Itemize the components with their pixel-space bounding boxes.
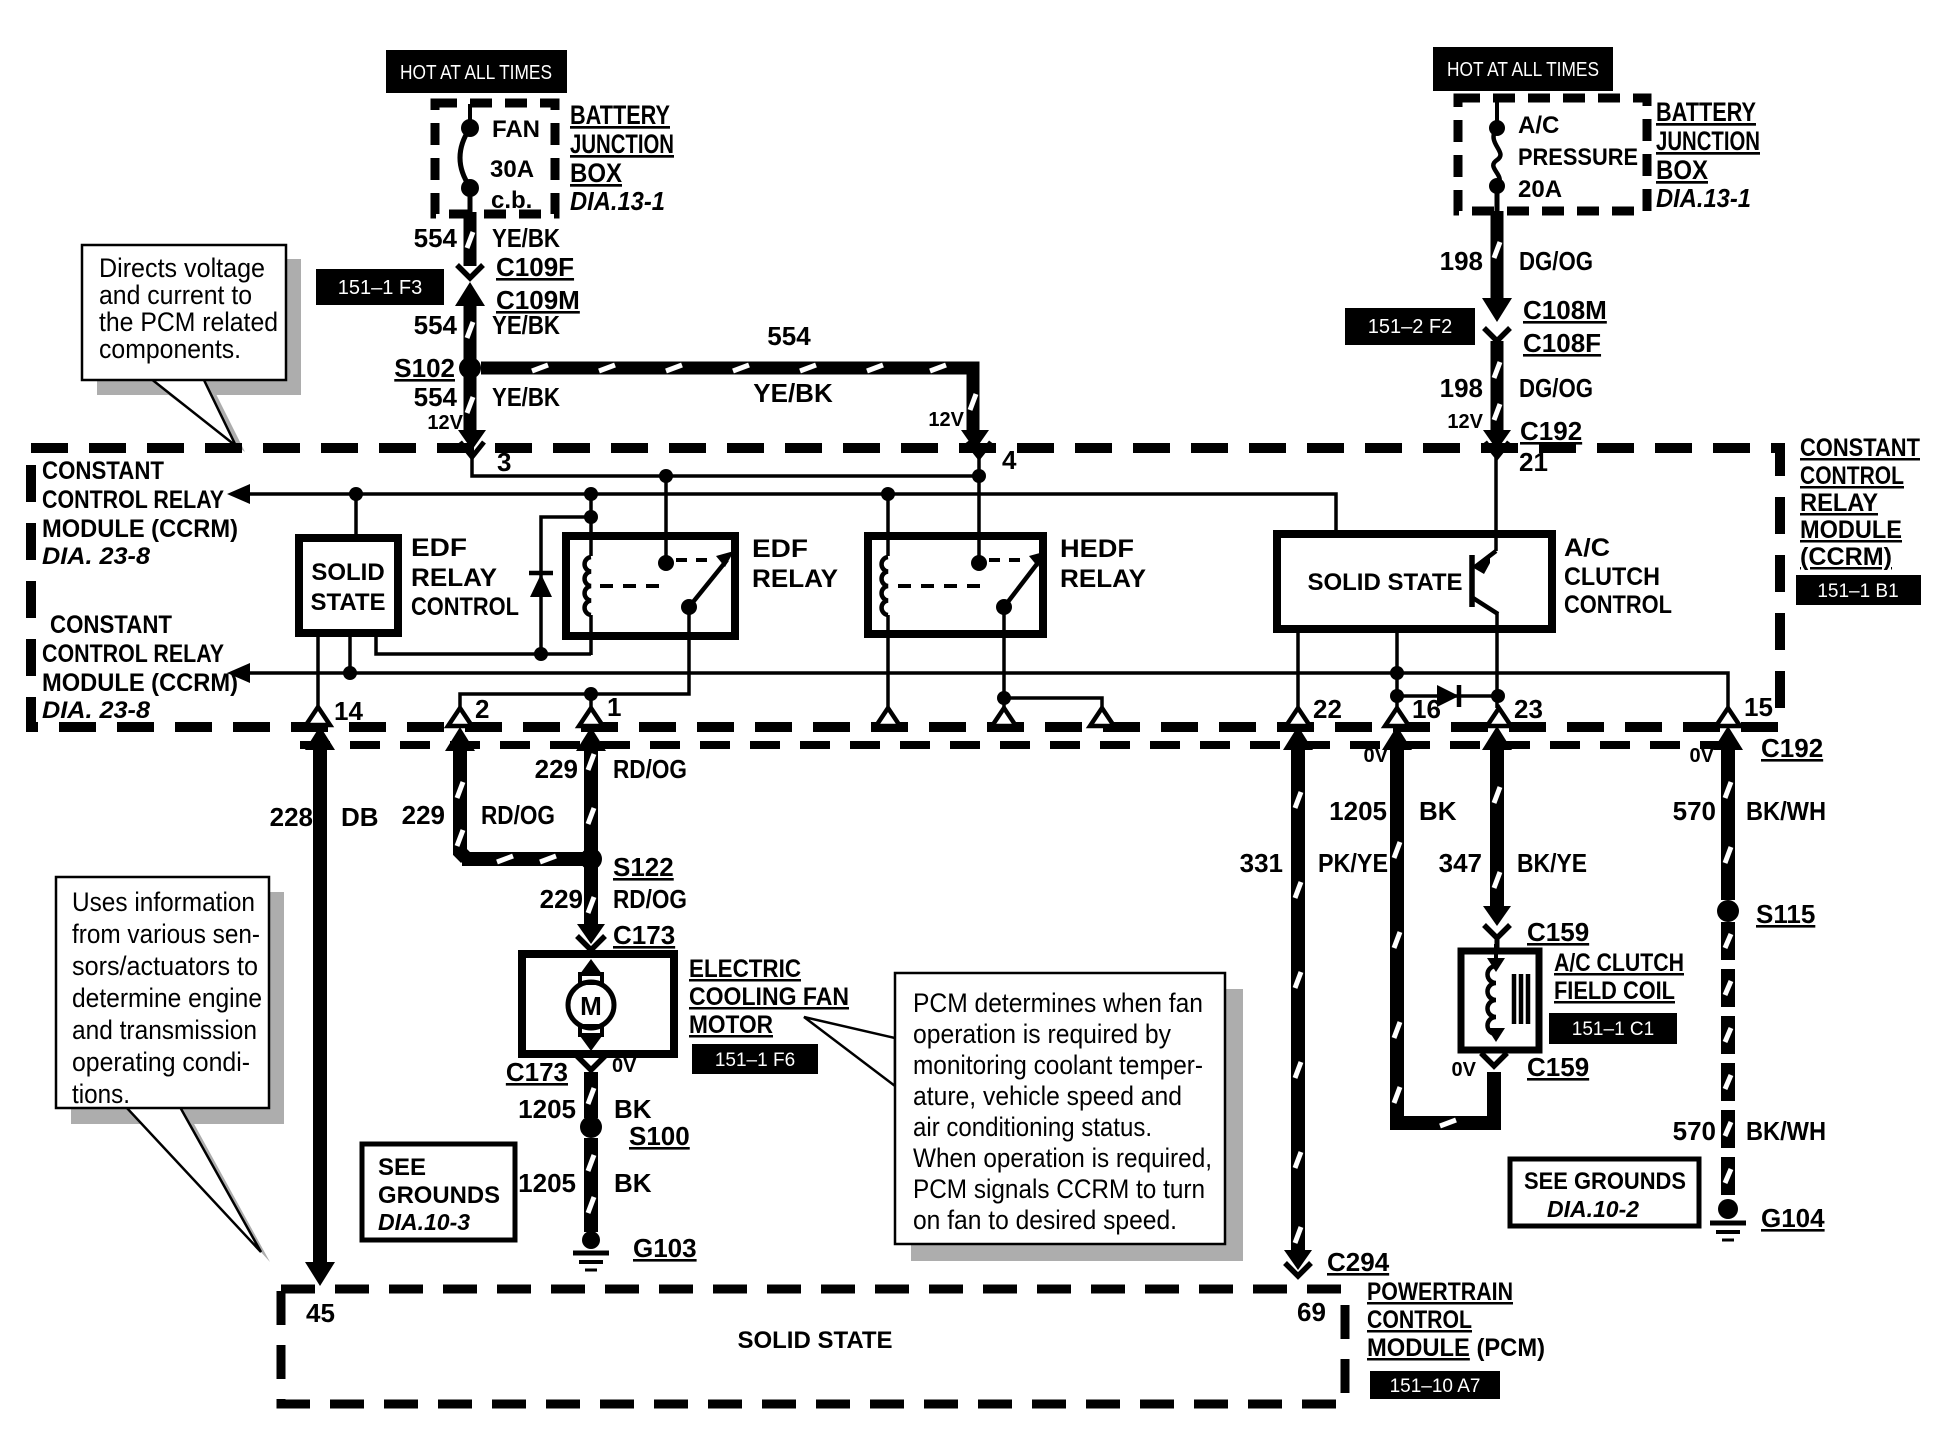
- wire supply rail to solid states and relay coils: [227, 484, 1336, 534]
- svg-text:tions.: tions.: [72, 1079, 130, 1109]
- svg-text:PK/YE: PK/YE: [1318, 848, 1388, 878]
- svg-text:JUNCTION: JUNCTION: [1656, 126, 1760, 156]
- svg-text:554: 554: [414, 382, 458, 412]
- svg-text:1: 1: [607, 692, 621, 722]
- wire 229 RD/OG (pin 1 to S122): [576, 727, 606, 852]
- svg-text:DG/OG: DG/OG: [1519, 246, 1593, 276]
- svg-text:ature, vehicle speed and: ature, vehicle speed and: [913, 1081, 1182, 1111]
- svg-text:S122: S122: [613, 852, 674, 882]
- svg-text:4: 4: [1002, 445, 1017, 475]
- wire right solid state to pin 22: [1296, 629, 1300, 708]
- pin 4: [967, 442, 1017, 475]
- svg-text:229: 229: [540, 884, 583, 914]
- motor M symbol: [568, 959, 614, 1051]
- connector C108M/C108F: [1484, 295, 1607, 358]
- pin 21: [1485, 442, 1548, 477]
- svg-text:PCM determines when fan: PCM determines when fan: [913, 988, 1203, 1018]
- wire pin3 to pin4 feed: [472, 457, 986, 483]
- label: A/C CLUTCH FIELD COIL: [1554, 949, 1684, 1005]
- svg-text:HEDF: HEDF: [1060, 535, 1134, 563]
- svg-text:and current to: and current to: [99, 280, 252, 310]
- note bubble: Uses information: [56, 877, 284, 1262]
- wire 554 YE/BK horizontal (S102 to pin 4): [481, 365, 989, 450]
- EDF contact output wire to pins 1 and 2: [460, 607, 689, 708]
- wire solid state to pin 14: [316, 633, 320, 708]
- wire 1205 BK (pin 16 to A/C clutch return): [1382, 726, 1494, 1126]
- svg-text:12V: 12V: [427, 412, 463, 434]
- svg-text:151–1 F3: 151–1 F3: [338, 277, 423, 299]
- label: CONSTANT CONTROL RELAY MODULE (CCRM) DIA. 23-8 (upper left): [42, 457, 238, 570]
- svg-text:1205: 1205: [518, 1168, 576, 1198]
- svg-text:STATE: STATE: [310, 589, 385, 616]
- PCM module dashed box: [281, 1289, 1345, 1404]
- svg-text:CONTROL: CONTROL: [1367, 1306, 1472, 1334]
- svg-text:SOLID: SOLID: [311, 559, 384, 586]
- label: CONSTANT CONTROL RELAY MODULE (CCRM) (right): [1800, 434, 1920, 571]
- svg-text:FAN: FAN: [492, 116, 540, 143]
- svg-text:151–1 B1: 151–1 B1: [1817, 581, 1898, 602]
- svg-text:15: 15: [1744, 692, 1773, 722]
- pin 23: [1487, 694, 1543, 726]
- svg-text:229: 229: [402, 800, 445, 830]
- unlabeled pin (HEDF contact b): [1090, 708, 1114, 726]
- svg-text:EDF: EDF: [411, 534, 467, 562]
- svg-text:(CCRM): (CCRM): [1800, 543, 1892, 571]
- label: BATTERY JUNCTION BOX DIA.13-1 (right): [1656, 97, 1760, 213]
- svg-text:EDF: EDF: [752, 535, 808, 563]
- svg-text:RELAY: RELAY: [411, 564, 497, 592]
- connector C192 dashed line: [300, 733, 1823, 763]
- EDF relay box: [566, 536, 735, 636]
- svg-text:1205: 1205: [518, 1094, 576, 1124]
- svg-text:C159: C159: [1527, 1052, 1589, 1082]
- wire 229 RD/OG (pin 2 to S122): [445, 727, 584, 862]
- svg-text:A/C: A/C: [1564, 534, 1610, 562]
- svg-text:0V: 0V: [1452, 1059, 1477, 1081]
- svg-text:A/C CLUTCH: A/C CLUTCH: [1554, 949, 1684, 977]
- wire 1205 BK (S100 to G103): [588, 1138, 594, 1232]
- label: EDF RELAY CONTROL: [411, 534, 519, 621]
- svg-text:YE/BK: YE/BK: [492, 310, 560, 340]
- wire 228 DB (pin 14 to PCM pin 45): [305, 726, 335, 1286]
- svg-text:347: 347: [1439, 848, 1482, 878]
- wire 1205 BK (C173 to S100): [588, 1072, 594, 1118]
- svg-text:sors/actuators to: sors/actuators to: [72, 951, 258, 981]
- note box: SEE GROUNDS DIA.10-3: [362, 1144, 515, 1240]
- wire 331 PK/YE (pin 22 to C294 / PCM pin 69): [1283, 726, 1313, 1270]
- A/C clutch coil symbol: [1487, 944, 1528, 1042]
- label box: HOT AT ALL TIMES (left): [386, 50, 567, 93]
- svg-text:CONTROL: CONTROL: [1564, 591, 1672, 619]
- unlabeled pin (HEDF coil): [876, 708, 900, 726]
- grid label 151-1 B1: [1796, 575, 1921, 605]
- svg-text:S115: S115: [1756, 899, 1815, 929]
- splice S102: [394, 353, 481, 383]
- svg-text:198: 198: [1440, 246, 1483, 276]
- svg-text:20A: 20A: [1518, 176, 1562, 203]
- note bubble: Directs voltage: [82, 245, 301, 452]
- HEDF relay coil: [882, 494, 888, 708]
- svg-text:MODULE (PCM): MODULE (PCM): [1367, 1334, 1545, 1362]
- svg-text:M: M: [580, 991, 602, 1021]
- svg-text:components.: components.: [99, 334, 241, 364]
- svg-text:C159: C159: [1527, 917, 1589, 947]
- svg-text:the PCM related: the PCM related: [99, 307, 278, 337]
- svg-text:30A: 30A: [490, 156, 534, 183]
- svg-text:12V: 12V: [1447, 411, 1483, 433]
- svg-text:C173: C173: [506, 1057, 568, 1087]
- splice S100: [580, 1116, 690, 1151]
- EDF relay coil: [584, 494, 598, 655]
- wire 570 BK/WH (S115 to G104): [1725, 922, 1731, 1200]
- note box: SEE GROUNDS DIA.10-2: [1510, 1159, 1699, 1226]
- svg-text:HOT AT ALL TIMES: HOT AT ALL TIMES: [1447, 59, 1599, 81]
- solid state block (A/C clutch control): [1277, 534, 1552, 629]
- svg-text:DIA. 23-8: DIA. 23-8: [42, 543, 151, 570]
- connector C173 (top): [577, 920, 675, 950]
- svg-text:22: 22: [1313, 694, 1342, 724]
- svg-text:CONTROL RELAY: CONTROL RELAY: [42, 486, 224, 514]
- svg-text:MODULE (CCRM): MODULE (CCRM): [42, 669, 238, 697]
- svg-text:554: 554: [414, 310, 458, 340]
- electric cooling fan motor box: [522, 954, 674, 1054]
- label: ELECTRIC COOLING FAN MOTOR: [689, 955, 849, 1039]
- circuit breaker symbol: [460, 104, 479, 214]
- svg-text:DB: DB: [341, 802, 379, 832]
- battery junction box (right, A/C PRESSURE 20A): [1458, 98, 1647, 211]
- svg-text:151–10 A7: 151–10 A7: [1390, 1376, 1481, 1397]
- diode pin16 to pin23: [1397, 685, 1505, 707]
- solid state block (EDF control): [299, 538, 398, 633]
- svg-text:0V: 0V: [612, 1055, 637, 1077]
- svg-text:BK/YE: BK/YE: [1517, 848, 1587, 878]
- svg-text:operating condi-: operating condi-: [72, 1047, 250, 1077]
- pin 15: [1716, 692, 1773, 726]
- svg-text:from various sen-: from various sen-: [72, 919, 260, 949]
- transistor Q (A/C clutch driver): [1472, 457, 1498, 708]
- svg-text:DIA.13-1: DIA.13-1: [570, 186, 665, 216]
- svg-text:Uses information: Uses information: [72, 887, 255, 917]
- svg-text:When operation is required,: When operation is required,: [913, 1143, 1212, 1173]
- wire 229 RD/OG (S122 to C173): [577, 859, 605, 944]
- unlabeled pin (HEDF contact a): [992, 708, 1016, 726]
- svg-text:DG/OG: DG/OG: [1519, 373, 1593, 403]
- wire 198 DG/OG (C108F to pin 21): [1483, 341, 1511, 450]
- wire right solid state to pin 16: [1390, 629, 1404, 708]
- svg-text:16: 16: [1412, 694, 1441, 724]
- grid label 151-2 F2: [1345, 308, 1475, 345]
- splice S122: [580, 848, 674, 882]
- svg-text:BK: BK: [614, 1094, 652, 1124]
- svg-text:0V: 0V: [1364, 745, 1389, 767]
- ground G103: [573, 1231, 697, 1270]
- svg-text:POWERTRAIN: POWERTRAIN: [1367, 1278, 1513, 1306]
- grid label 151-1 F6: [692, 1044, 818, 1074]
- svg-text:DIA.10-2: DIA.10-2: [1547, 1196, 1639, 1222]
- svg-text:GROUNDS: GROUNDS: [378, 1182, 500, 1209]
- wire 198 DG/OG (fuse to C108M): [1482, 211, 1512, 322]
- svg-text:YE/BK: YE/BK: [753, 378, 833, 408]
- note box: PCM determines: [804, 973, 1243, 1261]
- svg-text:DIA.10-3: DIA.10-3: [378, 1209, 470, 1235]
- svg-text:c.b.: c.b.: [491, 187, 532, 214]
- svg-text:570: 570: [1673, 1116, 1716, 1146]
- svg-text:MODULE: MODULE: [1800, 516, 1902, 544]
- svg-text:BATTERY: BATTERY: [570, 100, 670, 130]
- svg-text:C108F: C108F: [1523, 328, 1601, 358]
- svg-text:DIA.13-1: DIA.13-1: [1656, 183, 1751, 213]
- svg-text:3: 3: [497, 447, 511, 477]
- wire 554 YE/BK (C109M to S102): [467, 300, 473, 362]
- pin 2: [448, 694, 489, 726]
- pin 14: [306, 696, 363, 726]
- svg-text:RD/OG: RD/OG: [481, 800, 555, 830]
- svg-text:C294: C294: [1327, 1247, 1390, 1277]
- svg-text:CONTROL: CONTROL: [1800, 462, 1904, 490]
- wire 347 BK/YE (pin 23 to C159): [1482, 726, 1512, 926]
- svg-text:A/C: A/C: [1518, 112, 1559, 139]
- svg-text:RD/OG: RD/OG: [613, 884, 687, 914]
- svg-text:on fan to desired speed.: on fan to desired speed.: [913, 1205, 1177, 1235]
- svg-text:BOX: BOX: [1656, 155, 1708, 185]
- svg-text:S100: S100: [629, 1121, 690, 1151]
- svg-text:BK: BK: [1419, 796, 1457, 826]
- label: CONSTANT CONTROL RELAY MODULE (CCRM) DIA. 23-8 (lower left): [42, 611, 238, 724]
- wire 570 BK/WH (pin 15 to S115): [1713, 726, 1743, 900]
- battery junction box (left, FAN 30A c.b.): [435, 103, 555, 214]
- svg-text:2: 2: [475, 694, 489, 724]
- label box: HOT AT ALL TIMES (right): [1433, 47, 1613, 91]
- connector C109F/C109M: [455, 252, 580, 315]
- svg-text:MODULE (CCRM): MODULE (CCRM): [42, 515, 238, 543]
- svg-text:151–2 F2: 151–2 F2: [1368, 316, 1453, 338]
- svg-text:FIELD COIL: FIELD COIL: [1554, 977, 1675, 1005]
- svg-text:DIA. 23-8: DIA. 23-8: [42, 697, 151, 724]
- pin 22: [1286, 694, 1342, 726]
- svg-text:RD/OG: RD/OG: [613, 754, 687, 784]
- svg-text:554: 554: [767, 321, 811, 351]
- svg-text:228: 228: [270, 802, 313, 832]
- grid label 151-1 C1: [1549, 1013, 1677, 1044]
- svg-text:C108M: C108M: [1523, 295, 1607, 325]
- svg-text:BK: BK: [614, 1168, 652, 1198]
- svg-text:HOT AT ALL TIMES: HOT AT ALL TIMES: [400, 62, 552, 84]
- svg-text:C192: C192: [1520, 416, 1582, 446]
- svg-text:C109F: C109F: [496, 252, 574, 282]
- svg-text:CONTROL: CONTROL: [411, 593, 519, 621]
- svg-text:21: 21: [1519, 447, 1548, 477]
- svg-text:SOLID STATE: SOLID STATE: [737, 1327, 892, 1354]
- svg-text:ELECTRIC: ELECTRIC: [689, 955, 801, 983]
- svg-text:331: 331: [1240, 848, 1283, 878]
- label: POWERTRAIN CONTROL MODULE (PCM): [1367, 1278, 1545, 1362]
- svg-text:CONSTANT: CONSTANT: [50, 611, 172, 639]
- svg-text:G104: G104: [1761, 1203, 1825, 1233]
- HEDF contact output wires: [997, 607, 1102, 708]
- wire 554 YE/BK (c.b. to C109F): [457, 212, 483, 278]
- HEDF relay box: [868, 536, 1043, 634]
- svg-text:JUNCTION: JUNCTION: [570, 129, 674, 159]
- svg-text:23: 23: [1514, 694, 1543, 724]
- svg-text:CONTROL RELAY: CONTROL RELAY: [42, 640, 224, 668]
- svg-text:151–1 F6: 151–1 F6: [715, 1050, 795, 1071]
- connector C159 (bottom): [1452, 1052, 1590, 1082]
- svg-text:determine engine: determine engine: [72, 983, 262, 1013]
- connector C159 (top): [1484, 917, 1589, 951]
- svg-text:RELAY: RELAY: [1060, 565, 1146, 593]
- svg-text:14: 14: [334, 696, 363, 726]
- EDF relay control wire: [376, 633, 591, 654]
- wire 554 YE/BK (S102 to pin 3): [458, 368, 486, 450]
- svg-text:12V: 12V: [928, 409, 964, 431]
- svg-text:SEE GROUNDS: SEE GROUNDS: [1524, 1168, 1686, 1195]
- ground G104: [1710, 1199, 1825, 1240]
- svg-text:YE/BK: YE/BK: [492, 223, 560, 253]
- svg-text:RELAY: RELAY: [752, 565, 838, 593]
- pin 3: [460, 442, 511, 477]
- label: BATTERY JUNCTION BOX DIA.13-1 (left): [570, 100, 674, 216]
- svg-text:1205: 1205: [1329, 796, 1387, 826]
- svg-text:Directs voltage: Directs voltage: [99, 253, 265, 283]
- svg-text:229: 229: [535, 754, 578, 784]
- svg-text:RELAY: RELAY: [1800, 489, 1878, 517]
- svg-text:69: 69: [1297, 1297, 1326, 1327]
- fuse symbol (20A): [1489, 99, 1505, 212]
- wire to left solid state: [354, 494, 358, 538]
- svg-text:CONSTANT: CONSTANT: [42, 457, 164, 485]
- grid label 151-10 A7: [1370, 1371, 1500, 1399]
- svg-text:PRESSURE: PRESSURE: [1518, 144, 1638, 171]
- connector C294: [1285, 1247, 1390, 1277]
- wire lower rail (pin 15 feed): [227, 663, 1728, 708]
- svg-text:BK/WH: BK/WH: [1746, 796, 1826, 826]
- connector C173 (bottom): [506, 1055, 637, 1087]
- CCRM module dashed box: [31, 448, 1780, 727]
- svg-text:S102: S102: [394, 353, 455, 383]
- svg-text:BK/WH: BK/WH: [1746, 1116, 1826, 1146]
- wire solid state to lower rail: [348, 633, 352, 673]
- svg-text:BOX: BOX: [570, 158, 622, 188]
- svg-text:SOLID STATE: SOLID STATE: [1307, 569, 1462, 596]
- splice S115: [1717, 899, 1815, 929]
- svg-text:SEE: SEE: [378, 1154, 426, 1181]
- A/C clutch field coil box: [1461, 951, 1539, 1050]
- label: HEDF RELAY: [1060, 535, 1146, 593]
- label: A/C CLUTCH CONTROL: [1564, 534, 1672, 619]
- EDF relay contact: [600, 476, 734, 615]
- svg-text:CONSTANT: CONSTANT: [1800, 434, 1920, 462]
- label: EDF RELAY: [752, 535, 838, 593]
- svg-text:198: 198: [1440, 373, 1483, 403]
- svg-text:45: 45: [306, 1298, 335, 1328]
- pin 16: [1385, 694, 1441, 726]
- svg-text:air conditioning status.: air conditioning status.: [913, 1112, 1152, 1142]
- svg-text:YE/BK: YE/BK: [492, 382, 560, 412]
- svg-text:operation is required by: operation is required by: [913, 1019, 1171, 1049]
- svg-text:G103: G103: [633, 1233, 697, 1263]
- svg-text:151–1 C1: 151–1 C1: [1572, 1019, 1654, 1040]
- svg-text:MOTOR: MOTOR: [689, 1011, 773, 1039]
- svg-text:570: 570: [1673, 796, 1716, 826]
- svg-text:C192: C192: [1761, 733, 1823, 763]
- pin 1: [579, 692, 621, 726]
- HEDF relay contact: [898, 476, 1047, 615]
- EDF clamp diode: [529, 517, 591, 661]
- grid label 151-1 F3: [316, 269, 444, 305]
- svg-text:BATTERY: BATTERY: [1656, 97, 1756, 127]
- svg-text:CLUTCH: CLUTCH: [1564, 563, 1660, 591]
- svg-text:monitoring coolant temper-: monitoring coolant temper-: [913, 1050, 1203, 1080]
- svg-text:PCM signals CCRM to turn: PCM signals CCRM to turn: [913, 1174, 1205, 1204]
- svg-text:C173: C173: [613, 920, 675, 950]
- svg-text:0V: 0V: [1690, 745, 1715, 767]
- svg-text:and transmission: and transmission: [72, 1015, 257, 1045]
- svg-text:COOLING FAN: COOLING FAN: [689, 983, 849, 1011]
- svg-text:554: 554: [414, 223, 458, 253]
